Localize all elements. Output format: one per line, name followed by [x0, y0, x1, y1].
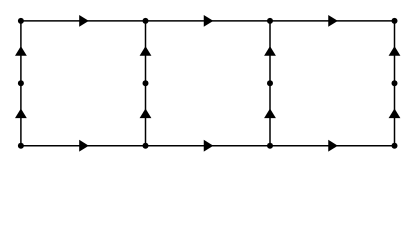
- node top row, first column: [18, 18, 24, 24]
- arrow right, top row, span 3: [328, 15, 338, 27]
- node top row, third column: [267, 18, 273, 24]
- wire second vertical column: [145, 21, 147, 146]
- arrow right, top row, span 2: [204, 15, 214, 27]
- arrow up, second column, lower segment: [140, 109, 152, 119]
- arrow up, third column, lower segment: [264, 109, 276, 119]
- node bottom row, third column: [267, 143, 273, 149]
- node top row, fourth column: [392, 18, 398, 24]
- arrow up, first column, lower segment: [15, 109, 27, 119]
- arrow up, first column, upper segment: [15, 46, 27, 56]
- node top row, second column: [143, 18, 149, 24]
- wire first vertical column: [20, 21, 22, 146]
- wire bottom horizontal row: [21, 145, 395, 147]
- arrow right, bottom row, span 2: [204, 140, 214, 152]
- arrow up, second column, upper segment: [140, 46, 152, 56]
- arrow up, third column, upper segment: [264, 46, 276, 56]
- node middle row, third column: [267, 80, 273, 86]
- arrow right, bottom row, span 1: [79, 140, 89, 152]
- arrow up, fourth column, upper segment: [389, 46, 401, 56]
- node bottom row, second column: [143, 143, 149, 149]
- arrow right, bottom row, span 3: [328, 140, 338, 152]
- wire top horizontal row: [21, 20, 395, 22]
- wire third vertical column: [269, 21, 271, 146]
- node bottom row, first column: [18, 143, 24, 149]
- arrow up, fourth column, lower segment: [389, 109, 401, 119]
- node bottom row, fourth column: [392, 143, 398, 149]
- wire fourth vertical column: [394, 21, 396, 146]
- node middle row, fourth column: [392, 80, 398, 86]
- node middle row, first column: [18, 80, 24, 86]
- arrow right, top row, span 1: [79, 15, 89, 27]
- node middle row, second column: [143, 80, 149, 86]
